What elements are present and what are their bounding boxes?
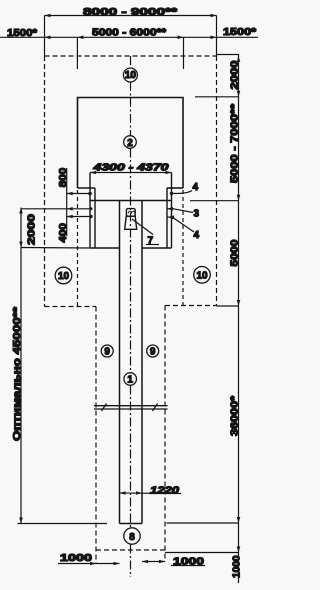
svg-text:1: 1 xyxy=(127,375,133,386)
throw line y208.8 long left xyxy=(21,208,90,210)
extension line x183.5 xyxy=(183,37,185,69)
svg-text:1000: 1000 xyxy=(60,553,93,564)
svg-text:8: 8 xyxy=(129,532,135,543)
corridor dashed edge right x165 xyxy=(164,306,166,562)
svg-text:10: 10 xyxy=(125,70,137,81)
attachment dots right xyxy=(170,192,174,220)
extension line x77.4 xyxy=(76,37,78,69)
circled 10 right xyxy=(194,267,211,284)
label 4 lower leader xyxy=(174,218,195,232)
svg-text:8000 - 9000**: 8000 - 9000** xyxy=(83,7,177,18)
dimension line 8000-9000 xyxy=(45,14,217,18)
left chain dimension line x21 xyxy=(20,208,22,524)
front band outer left (4300 hook + edge) xyxy=(89,173,91,249)
svg-text:9: 9 xyxy=(104,347,110,358)
centerline axis xyxy=(130,56,132,577)
svg-text:10: 10 xyxy=(196,271,208,282)
svg-text:36000*: 36000* xyxy=(230,396,241,436)
site boundary dashed left xyxy=(44,56,46,307)
extension line left x44.5 xyxy=(44,16,46,57)
corridor dashed edge left x96 xyxy=(95,307,97,565)
front band outer right (4370 hook + edge) xyxy=(171,173,173,249)
pin figure body xyxy=(125,216,137,229)
circled 2 xyxy=(124,136,137,149)
svg-text:1500*: 1500* xyxy=(223,27,256,38)
svg-text:3: 3 xyxy=(194,209,200,220)
site boundary step right y306 xyxy=(165,305,217,307)
kon double line y406-409 xyxy=(94,405,168,407)
city square xyxy=(78,98,184,189)
dimension 1000 bottom right xyxy=(142,561,165,563)
circled 9 left xyxy=(101,345,113,358)
svg-text:5000 - 6000**: 5000 - 6000** xyxy=(92,28,166,39)
svg-text:2000: 2000 xyxy=(230,60,241,90)
carrier extension x66.7 xyxy=(66,168,68,236)
circled 10 top xyxy=(123,68,137,82)
svg-text:2000: 2000 xyxy=(27,213,38,245)
right stub y217 xyxy=(167,216,173,218)
site boundary step left y306 xyxy=(45,306,97,308)
front band top line xyxy=(90,200,172,202)
svg-text:5000 - 7000**: 5000 - 7000** xyxy=(230,104,241,183)
attachment dots left xyxy=(88,192,93,218)
svg-text:1000: 1000 xyxy=(231,555,242,578)
city edge dashed continuation right xyxy=(182,190,184,306)
arrowheads on carrier xyxy=(67,192,73,219)
circled 10 left xyxy=(55,267,72,284)
svg-text:9: 9 xyxy=(150,347,156,358)
svg-text:10: 10 xyxy=(58,271,70,282)
label 7 leader xyxy=(132,219,153,235)
svg-text:400: 400 xyxy=(58,223,69,243)
right chain dimension line x238.5 xyxy=(238,54,240,583)
extension y247.5 to band xyxy=(21,247,90,250)
dimension 1000 bottom left xyxy=(58,563,120,565)
circled 9 right xyxy=(147,345,159,358)
right extension y306 xyxy=(217,305,239,307)
circled 1 xyxy=(124,373,137,386)
throw line y216.5 left xyxy=(67,216,91,218)
svg-text:4: 4 xyxy=(193,182,199,193)
right extension y523 xyxy=(167,522,239,524)
svg-text:4300 - 4370: 4300 - 4370 xyxy=(92,163,169,174)
svg-text:4: 4 xyxy=(194,230,200,241)
svg-text:2: 2 xyxy=(127,138,133,149)
svg-text:5000: 5000 xyxy=(230,239,241,267)
box outer edge right x167 xyxy=(166,188,168,248)
label 3 leader xyxy=(174,209,194,213)
dashed end line y550 xyxy=(96,549,165,551)
lane right edge xyxy=(141,201,143,524)
right extension y552.5 xyxy=(165,552,239,554)
underline 1000 bottom right xyxy=(171,565,205,567)
pin figure head xyxy=(126,209,135,217)
site boundary dashed top xyxy=(45,55,217,57)
box outer edge left x95 xyxy=(94,188,96,248)
dimension line 1500/5000-6000/1500 xyxy=(0,36,258,40)
svg-text:Оптимально 45000**: Оптимально 45000** xyxy=(12,307,23,441)
dimension 1220 xyxy=(120,492,182,495)
label 4 upper leader xyxy=(174,191,193,194)
front band bottom line xyxy=(90,247,172,249)
right extension y54 xyxy=(217,54,239,56)
dimension 4300-4370 xyxy=(90,172,172,174)
svg-text:1220: 1220 xyxy=(150,486,180,497)
label 7 underline xyxy=(146,244,159,246)
svg-text:800: 800 xyxy=(58,167,69,187)
right stub y208.8 xyxy=(167,208,174,210)
pin figure head arcs xyxy=(128,211,135,213)
kon line ticks xyxy=(102,404,107,412)
extension y523.5 left xyxy=(18,523,108,525)
svg-text:1500*: 1500* xyxy=(7,28,37,39)
city edge dashed continuation left xyxy=(77,190,79,307)
circled 8 xyxy=(124,528,140,544)
extension line right x216.5 xyxy=(216,16,218,57)
lane left edge xyxy=(119,201,121,524)
site boundary dashed right xyxy=(216,56,218,306)
right extension y96.8 xyxy=(195,96,239,98)
throw line y193.5 left xyxy=(67,193,90,195)
right extension y200.7 xyxy=(190,200,239,202)
lane bottom edge xyxy=(120,523,143,525)
